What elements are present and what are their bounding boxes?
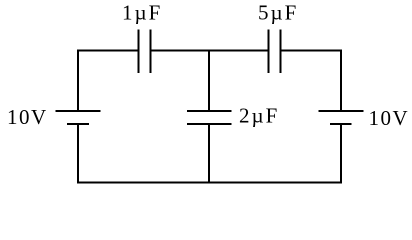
- svg-text:10V: 10V: [7, 105, 48, 129]
- svg-text:2µF: 2µF: [239, 104, 279, 128]
- wire left lower: [77, 124, 79, 184]
- svg-text:5µF: 5µF: [258, 1, 298, 25]
- wire top-left segment: [78, 50, 138, 52]
- battery V2 right 10V: [319, 111, 364, 124]
- svg-text:10V: 10V: [369, 106, 410, 130]
- capacitor C3 2uF plates: [187, 111, 232, 124]
- capacitor C1 1uF plates: [139, 30, 151, 74]
- wire middle upper: [208, 50, 210, 112]
- capacitor C2 5uF plates: [269, 30, 281, 74]
- battery V1 left 10V: [56, 111, 101, 124]
- wire top-middle segment: [152, 50, 268, 52]
- wire middle lower: [208, 124, 210, 184]
- wire right lower: [340, 124, 342, 184]
- wire top-right segment: [282, 50, 343, 52]
- svg-text:1µF: 1µF: [122, 1, 162, 25]
- wire right upper: [340, 50, 342, 112]
- wire bottom segment: [77, 182, 342, 184]
- wire left upper: [77, 50, 79, 112]
